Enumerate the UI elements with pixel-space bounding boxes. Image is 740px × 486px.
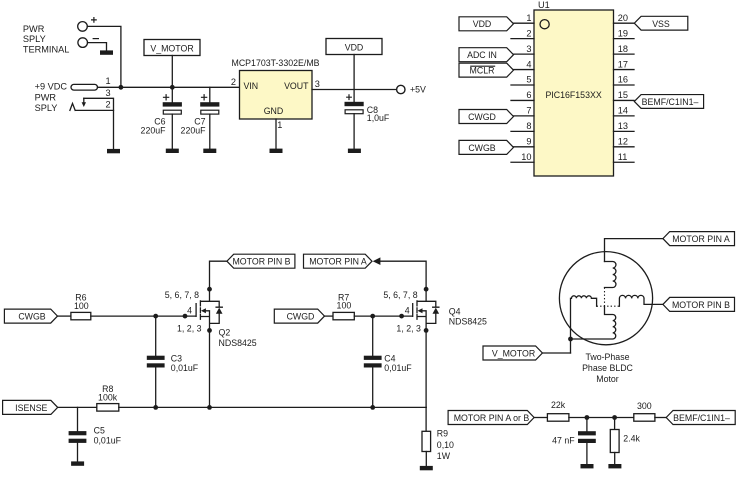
svg-text:V_MOTOR: V_MOTOR [150, 43, 193, 53]
svg-text:3: 3 [105, 88, 110, 98]
svg-text:8: 8 [526, 121, 531, 131]
svg-text:C4: C4 [384, 354, 395, 364]
svg-text:1,0uF: 1,0uF [367, 113, 390, 123]
svg-text:Two-Phase: Two-Phase [585, 352, 629, 362]
svg-text:VSS: VSS [652, 19, 670, 29]
svg-text:300: 300 [637, 401, 652, 411]
svg-text:C3: C3 [171, 354, 182, 364]
svg-text:7: 7 [526, 106, 531, 116]
svg-text:4: 4 [526, 59, 531, 69]
svg-text:U1: U1 [538, 0, 550, 10]
svg-text:2: 2 [231, 77, 236, 87]
svg-text:2: 2 [105, 100, 110, 110]
svg-text:100: 100 [337, 301, 352, 311]
svg-text:1, 2, 3: 1, 2, 3 [396, 324, 421, 334]
svg-text:11: 11 [618, 152, 628, 162]
svg-text:ISENSE: ISENSE [15, 403, 47, 413]
svg-text:VOUT: VOUT [284, 81, 309, 91]
svg-text:SPLY: SPLY [35, 103, 58, 113]
svg-text:C5: C5 [94, 425, 105, 435]
svg-text:+5V: +5V [410, 85, 426, 95]
svg-text:1, 2, 3: 1, 2, 3 [177, 324, 202, 334]
svg-text:Q2: Q2 [219, 328, 231, 338]
svg-text:0,01uF: 0,01uF [171, 363, 199, 373]
svg-text:V_MOTOR: V_MOTOR [492, 348, 535, 358]
svg-text:PWR: PWR [35, 92, 57, 102]
svg-text:VIN: VIN [244, 81, 259, 91]
svg-text:MOTOR PIN A or B: MOTOR PIN A or B [454, 413, 530, 423]
svg-text:3: 3 [315, 79, 320, 89]
svg-text:0,01uF: 0,01uF [94, 435, 122, 445]
svg-text:0,10: 0,10 [437, 440, 454, 450]
svg-text:13: 13 [618, 121, 628, 131]
svg-text:PIC16F153XX: PIC16F153XX [545, 90, 601, 100]
svg-text:16: 16 [618, 75, 628, 85]
svg-text:3: 3 [526, 44, 531, 54]
svg-text:VDD: VDD [473, 19, 492, 29]
svg-text:9: 9 [526, 137, 531, 147]
svg-text:15: 15 [618, 90, 628, 100]
svg-text:220uF: 220uF [181, 126, 207, 136]
svg-text:MCLR: MCLR [470, 66, 495, 76]
svg-text:VDD: VDD [345, 42, 364, 52]
svg-text:BEMF/C1IN1–: BEMF/C1IN1– [673, 413, 730, 423]
svg-text:0,01uF: 0,01uF [384, 363, 412, 373]
svg-text:1: 1 [277, 120, 282, 130]
svg-text:NDS8425: NDS8425 [219, 338, 257, 348]
svg-text:22k: 22k [551, 400, 566, 410]
svg-text:CWGD: CWGD [287, 312, 315, 322]
svg-text:R9: R9 [437, 428, 448, 438]
svg-text:5, 6, 7, 8: 5, 6, 7, 8 [165, 290, 199, 300]
svg-text:2.4k: 2.4k [623, 434, 640, 444]
svg-text:Phase BLDC: Phase BLDC [582, 363, 633, 373]
svg-text:TERMINAL: TERMINAL [23, 44, 69, 54]
svg-text:MOTOR PIN B: MOTOR PIN B [672, 300, 730, 310]
svg-text:10: 10 [521, 152, 531, 162]
svg-text:5, 6, 7, 8: 5, 6, 7, 8 [383, 290, 417, 300]
svg-text:14: 14 [618, 106, 628, 116]
svg-text:17: 17 [618, 59, 628, 69]
svg-text:Q4: Q4 [449, 307, 461, 317]
svg-text:6: 6 [526, 90, 531, 100]
svg-text:20: 20 [618, 13, 628, 23]
svg-text:NDS8425: NDS8425 [449, 317, 487, 327]
svg-text:1: 1 [105, 76, 110, 86]
svg-text:MCP1703T-3302E/MB: MCP1703T-3302E/MB [232, 58, 320, 68]
svg-text:ADC IN: ADC IN [467, 50, 497, 60]
svg-text:100: 100 [74, 301, 89, 311]
svg-text:1: 1 [526, 13, 531, 23]
svg-text:2: 2 [526, 28, 531, 38]
svg-text:12: 12 [618, 137, 628, 147]
svg-text:MOTOR PIN B: MOTOR PIN B [232, 257, 290, 267]
svg-text:47 nF: 47 nF [552, 436, 575, 446]
svg-text:1W: 1W [437, 451, 451, 461]
svg-text:CWGB: CWGB [468, 143, 495, 153]
svg-text:BEMF/C1IN1–: BEMF/C1IN1– [642, 97, 699, 107]
svg-text:GND: GND [264, 106, 284, 116]
svg-text:CWGD: CWGD [468, 112, 496, 122]
svg-text:CWGB: CWGB [18, 312, 45, 322]
svg-text:220uF: 220uF [141, 126, 167, 136]
svg-text:Motor: Motor [596, 374, 619, 384]
svg-text:MOTOR PIN A: MOTOR PIN A [672, 234, 730, 244]
svg-text:MOTOR PIN A: MOTOR PIN A [309, 257, 367, 267]
svg-text:5: 5 [526, 75, 531, 85]
svg-text:+9 VDC: +9 VDC [35, 81, 68, 91]
svg-text:4: 4 [405, 306, 410, 316]
svg-text:PWR: PWR [23, 24, 45, 34]
svg-text:19: 19 [618, 28, 628, 38]
svg-text:18: 18 [618, 44, 628, 54]
svg-text:SPLY: SPLY [23, 34, 46, 44]
svg-text:100k: 100k [98, 393, 118, 403]
svg-text:4: 4 [187, 306, 192, 316]
